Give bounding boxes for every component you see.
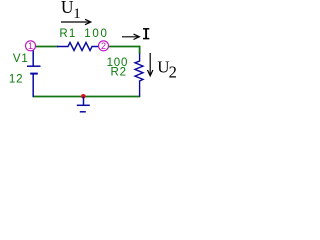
svg-text:2: 2	[101, 41, 106, 51]
svg-text:2: 2	[169, 62, 177, 81]
svg-text:100: 100	[84, 28, 108, 40]
resistor R1	[57, 43, 99, 51]
label I	[143, 28, 149, 39]
arrow I	[122, 34, 139, 39]
wire node1 to R1	[35, 46, 58, 48]
arrow U2	[148, 53, 153, 76]
battery V1 lead top	[32, 50, 34, 66]
battery V1 lead bottom	[32, 74, 34, 97]
arrow U1	[61, 19, 91, 24]
svg-text:R2: R2	[111, 66, 127, 78]
svg-text:V1: V1	[13, 53, 29, 65]
ground symbol	[77, 97, 90, 112]
resistor R2	[135, 54, 143, 97]
node 2	[99, 41, 109, 51]
wire bottom	[33, 96, 141, 98]
svg-text:1: 1	[73, 6, 81, 22]
svg-text:R1: R1	[59, 28, 76, 40]
battery V1 plate short	[30, 73, 38, 75]
svg-text:12: 12	[9, 74, 23, 86]
wire node2 to right corner	[108, 46, 140, 48]
node 1	[26, 41, 36, 51]
svg-text:1: 1	[28, 41, 33, 51]
wire right corner down stub	[139, 46, 141, 54]
svg-text:U: U	[61, 0, 74, 17]
battery V1 plate long	[27, 65, 41, 67]
ground junction dot	[81, 94, 86, 99]
